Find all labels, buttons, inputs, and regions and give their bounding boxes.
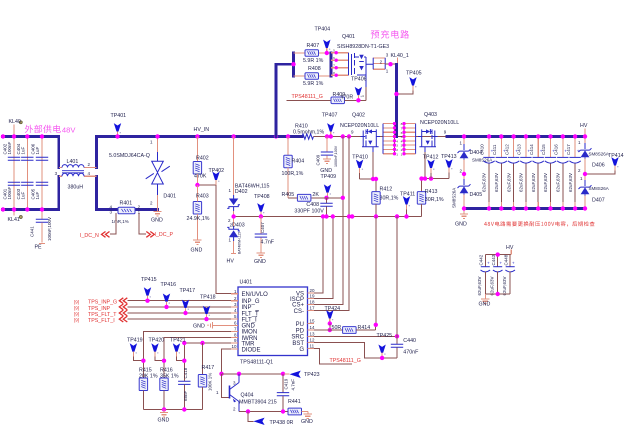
svg-text:TP423: TP423 <box>304 372 320 378</box>
svg-text:I_DC_N: I_DC_N <box>80 233 99 239</box>
svg-text:12: 12 <box>310 338 316 343</box>
resistor R417 <box>198 365 214 410</box>
wire bus into choke <box>59 137 97 210</box>
svg-text:D406: D406 <box>592 163 605 169</box>
svg-text:62uF,63V: 62uF,63V <box>531 173 536 192</box>
svg-text:50R: 50R <box>332 325 342 331</box>
svg-text:R402: R402 <box>196 156 209 162</box>
capacitor C404 <box>16 143 34 160</box>
wire HV top bus <box>447 135 585 138</box>
svg-text:C442: C442 <box>478 254 483 265</box>
svg-text:15: 15 <box>310 319 316 324</box>
capacitor C410 <box>480 134 495 210</box>
resistor R402 <box>193 137 209 186</box>
wire precharge feed <box>276 53 294 137</box>
capacitor C448 <box>502 254 515 295</box>
svg-text:6: 6 <box>234 320 237 325</box>
resistor R415 <box>139 367 158 409</box>
svg-text:TP407: TP407 <box>322 113 338 119</box>
wire top-left bus <box>3 135 59 138</box>
svg-text:TP411: TP411 <box>400 191 415 197</box>
svg-text:R401: R401 <box>120 201 133 207</box>
svg-text:1: 1 <box>580 176 583 181</box>
svg-text:NCEP020N10LL: NCEP020N10LL <box>420 120 459 126</box>
svg-text:62uF,63V: 62uF,63V <box>494 173 499 192</box>
ground at cap bank <box>455 209 468 228</box>
svg-text:2K: 2K <box>312 192 319 198</box>
capacitor C409 <box>315 137 338 168</box>
svg-text:62uF,63V: 62uF,63V <box>489 276 494 295</box>
capacitor C440 <box>391 217 419 358</box>
svg-text:9: 9 <box>444 130 447 135</box>
svg-text:+: + <box>577 148 580 153</box>
node TPS_FLT_I <box>74 316 127 324</box>
svg-text:C407: C407 <box>260 222 265 233</box>
resistor R408 <box>294 66 332 87</box>
testpoint TP407 <box>322 113 338 137</box>
svg-text:0.5mohm,1%: 0.5mohm,1% <box>293 129 324 135</box>
svg-text:D402: D402 <box>235 189 248 195</box>
svg-text:2: 2 <box>578 168 581 173</box>
diode D405 <box>452 174 483 209</box>
testpoint TP421 <box>170 337 187 363</box>
svg-text:[9]: [9] <box>74 306 79 311</box>
wire bottom-left bus <box>3 208 59 211</box>
svg-text:C416: C416 <box>554 144 559 155</box>
diode D407 <box>579 174 609 209</box>
svg-text:INP_G: INP_G <box>242 299 260 305</box>
testpoint TP408 <box>254 194 270 219</box>
svg-text:TP414: TP414 <box>608 153 624 159</box>
ground at C409 <box>320 159 332 174</box>
diode D406 <box>578 137 609 175</box>
wire KL40_1 drop <box>395 64 398 136</box>
resistor R410 shunt zigzag <box>293 124 324 140</box>
svg-text:TPS_INP: TPS_INP <box>88 306 111 312</box>
testpoint TP417 <box>180 288 196 315</box>
svg-text:L401: L401 <box>67 159 79 165</box>
svg-text:5.9R 1%: 5.9R 1% <box>303 81 324 87</box>
svg-text:TPS48111_G: TPS48111_G <box>330 358 361 364</box>
svg-text:470nF: 470nF <box>403 350 419 356</box>
svg-text:HV: HV <box>506 245 514 251</box>
svg-text:TP416: TP416 <box>161 282 177 288</box>
svg-text:TPS_FLT_I: TPS_FLT_I <box>88 318 115 324</box>
svg-text:62uF,63V: 62uF,63V <box>568 173 573 192</box>
svg-text:3: 3 <box>386 53 389 58</box>
svg-text:TP402: TP402 <box>209 168 225 174</box>
capacitor C412 <box>504 134 519 210</box>
testpoint TP410 <box>352 155 368 180</box>
svg-text:62uF,63V: 62uF,63V <box>482 173 487 192</box>
svg-text:4: 4 <box>88 171 91 176</box>
testpoint TP418 <box>200 294 216 321</box>
wire TPS_FLT_I <box>128 318 232 320</box>
wire HV local rail <box>485 255 511 267</box>
wire TPS_INP <box>128 306 232 308</box>
svg-text:1: 1 <box>150 140 153 145</box>
svg-text:4: 4 <box>362 94 364 98</box>
capacitor C402 <box>3 141 21 160</box>
svg-text:1uF: 1uF <box>35 146 40 154</box>
wire TPS_INP_G <box>128 300 232 302</box>
capacitor C407 <box>255 217 275 254</box>
svg-text:100nF,100V: 100nF,100V <box>47 217 52 241</box>
svg-text:TP424: TP424 <box>325 306 341 312</box>
svg-text:C417: C417 <box>566 144 571 155</box>
testpoint TP404 <box>315 27 331 56</box>
capacitor C443 <box>489 254 502 295</box>
svg-text:GND: GND <box>455 222 467 228</box>
svg-text:PE: PE <box>35 245 43 251</box>
testpoint TP402 <box>195 168 224 187</box>
wire GND local rail <box>485 293 510 295</box>
resistor R401 <box>109 201 140 225</box>
svg-text:48V: 48V <box>62 125 76 134</box>
capacitor C442 <box>477 254 490 295</box>
svg-text:C448: C448 <box>503 254 508 265</box>
wire TMR to R417 <box>202 343 204 375</box>
svg-text:GND: GND <box>254 259 266 265</box>
junction dots filter <box>1 134 5 138</box>
diode D404 <box>458 137 493 175</box>
svg-text:30R,1%: 30R,1% <box>380 195 399 201</box>
svg-text:20K 1%: 20K 1% <box>139 373 158 379</box>
svg-text:C415: C415 <box>541 144 546 155</box>
wire BST pin12 <box>314 343 397 358</box>
terminal KL40 <box>9 119 23 137</box>
transistor Q403 <box>418 112 459 152</box>
svg-text:KL40_1: KL40_1 <box>391 53 409 59</box>
svg-text:IMON: IMON <box>242 330 258 336</box>
svg-text:C418: C418 <box>183 367 188 378</box>
wire CS- sense vertical <box>314 137 349 311</box>
svg-text:100K 1%: 100K 1% <box>208 373 213 391</box>
capacitor C414 <box>529 134 544 210</box>
wire base feed <box>222 374 230 398</box>
capacitor C401 <box>3 182 21 199</box>
svg-text:11: 11 <box>310 344 315 349</box>
power HV at D403 <box>227 254 237 265</box>
resistor R407 <box>294 43 332 64</box>
svg-text:R403: R403 <box>196 193 209 199</box>
svg-text:19: 19 <box>310 294 316 299</box>
capacitor C406 <box>31 143 49 160</box>
svg-text:I_DC_P: I_DC_P <box>155 232 174 238</box>
svg-text:SM8S26A: SM8S26A <box>589 152 609 157</box>
svg-text:1: 1 <box>396 152 398 156</box>
svg-text:TP406: TP406 <box>351 77 367 83</box>
svg-text:TP425: TP425 <box>377 333 393 339</box>
svg-text:C440: C440 <box>403 338 416 344</box>
transistor Q401 <box>331 34 389 87</box>
wire VS pin vertical <box>314 217 323 294</box>
junction dots pin stacks overlay <box>393 122 406 155</box>
wire bus shunt to Q402 <box>314 136 361 138</box>
svg-text:[9]: [9] <box>74 312 79 317</box>
wire through MOSFET drains <box>380 136 447 138</box>
svg-text:HV_IN: HV_IN <box>194 127 210 133</box>
gate node Q402 <box>360 152 376 192</box>
svg-text:TP418: TP418 <box>200 294 216 300</box>
wire ISCP pin vertical <box>314 217 333 299</box>
svg-text:100nF: 100nF <box>7 186 12 199</box>
svg-text:TPS48111_G: TPS48111_G <box>292 94 323 100</box>
svg-text:D403: D403 <box>232 223 245 229</box>
svg-text:17: 17 <box>310 306 316 311</box>
svg-text:CS+: CS+ <box>292 303 304 309</box>
svg-text:C408: C408 <box>306 202 319 208</box>
testpoint TP420 <box>149 337 167 363</box>
svg-text:380uH: 380uH <box>68 185 84 191</box>
svg-text:9: 9 <box>351 130 354 135</box>
testpoint TP413 <box>441 154 457 179</box>
svg-text:Q402: Q402 <box>352 113 365 119</box>
svg-text:R404: R404 <box>292 159 305 165</box>
svg-text:GND: GND <box>151 218 163 224</box>
net TPS48111_G wire to R409 <box>287 99 332 101</box>
resistor R416 <box>160 367 179 409</box>
ground at R441 <box>301 414 313 425</box>
svg-text:R405: R405 <box>282 192 295 198</box>
svg-text:1uF: 1uF <box>35 191 40 199</box>
svg-text:MMBT3904 215: MMBT3904 215 <box>239 399 277 405</box>
svg-text:62uF,63V: 62uF,63V <box>506 173 511 192</box>
svg-text:R417: R417 <box>202 365 215 371</box>
resistor R413 <box>417 189 444 216</box>
svg-text:+: + <box>500 260 503 265</box>
svg-text:8: 8 <box>234 333 237 338</box>
svg-text:KL40: KL40 <box>9 119 21 125</box>
wire DIODE pin10 <box>222 349 232 374</box>
svg-text:35K 1%: 35K 1% <box>160 373 179 379</box>
resistor R412 <box>372 186 399 216</box>
svg-text:TP415: TP415 <box>141 277 157 283</box>
node I_DC_N <box>80 232 110 239</box>
wire IMON to R415 <box>143 331 231 378</box>
junction dots VS row <box>350 214 354 218</box>
testpoint TP411 <box>400 191 415 216</box>
svg-text:C443: C443 <box>491 254 496 265</box>
ground at R403 <box>191 240 203 253</box>
testpoint TP425 <box>377 333 393 360</box>
capacitor C403 <box>16 182 34 199</box>
ground GND at D401 <box>151 210 163 224</box>
wire collector row <box>222 373 290 375</box>
svg-text:TP420: TP420 <box>149 337 165 343</box>
svg-text:5.9R 1%: 5.9R 1% <box>303 58 324 64</box>
svg-text:C411: C411 <box>492 144 497 155</box>
svg-text:C412: C412 <box>504 144 509 155</box>
capacitor C417 <box>566 134 581 210</box>
capacitor C408 <box>294 198 332 219</box>
svg-text:DIODE: DIODE <box>242 347 261 353</box>
svg-text:TP412: TP412 <box>423 154 439 160</box>
svg-text:R441: R441 <box>288 399 301 405</box>
ground PE <box>35 244 46 251</box>
wire main HV_IN bus <box>97 135 303 138</box>
svg-text:R414: R414 <box>358 325 371 331</box>
capacitor C419 <box>277 374 296 412</box>
svg-text:24.9K,1%: 24.9K,1% <box>187 216 210 222</box>
svg-text:TP438 0R: TP438 0R <box>270 420 294 426</box>
wire GND bottom bus <box>464 207 585 210</box>
junction dot TP405 overlay <box>394 92 398 96</box>
svg-text:1: 1 <box>228 238 231 243</box>
svg-text:PU: PU <box>296 322 304 328</box>
svg-text:CS-: CS- <box>294 309 304 315</box>
svg-text:2: 2 <box>233 407 236 412</box>
svg-text:G: G <box>299 347 304 353</box>
svg-text:+: + <box>512 260 515 265</box>
svg-text:3: 3 <box>55 171 58 176</box>
svg-text:4.7nF: 4.7nF <box>291 379 296 391</box>
svg-text:SRC: SRC <box>291 335 304 341</box>
testpoint TP401 <box>111 113 127 137</box>
svg-text:FLT_I: FLT_I <box>242 317 258 323</box>
resistor R404 <box>282 137 305 198</box>
wire I_DC_N sense <box>110 213 116 234</box>
svg-text:R413: R413 <box>425 189 438 195</box>
resistor R441 <box>288 399 308 415</box>
svg-text:[9]: [9] <box>74 318 79 323</box>
svg-text:TP409: TP409 <box>321 174 337 180</box>
svg-text:C414: C414 <box>529 144 534 155</box>
svg-text:SM8S26A: SM8S26A <box>472 158 492 163</box>
node I_DC_P <box>146 232 173 239</box>
svg-text:62uF,63V: 62uF,63V <box>519 173 524 192</box>
svg-text:62uF,63V: 62uF,63V <box>556 173 561 192</box>
svg-text:5: 5 <box>333 49 335 53</box>
wire Q401 drain to KL40_1 <box>385 63 396 65</box>
svg-text:TP404: TP404 <box>315 27 331 33</box>
svg-text:470K: 470K <box>194 174 207 180</box>
svg-text:1: 1 <box>386 69 389 74</box>
svg-text:[9]: [9] <box>74 299 79 304</box>
svg-text:1: 1 <box>228 188 231 193</box>
svg-text:GND: GND <box>479 301 491 307</box>
svg-text:Q404: Q404 <box>241 392 254 398</box>
testpoint TP438 <box>248 412 294 427</box>
svg-text:+: + <box>487 260 490 265</box>
svg-text:5.0SMDJ64CA-Q: 5.0SMDJ64CA-Q <box>109 153 150 159</box>
svg-text:GND: GND <box>242 324 256 330</box>
svg-text:4.7nF: 4.7nF <box>261 240 275 246</box>
svg-text:INP: INP <box>242 305 252 311</box>
svg-text:68nF: 68nF <box>183 390 188 401</box>
svg-text:2: 2 <box>459 169 462 174</box>
testpoint TP405 <box>394 71 421 97</box>
wire PU/PD tie <box>329 324 331 331</box>
svg-text:100nF: 100nF <box>7 141 12 154</box>
svg-text:HV: HV <box>227 259 235 265</box>
svg-text:SM8S26A: SM8S26A <box>452 188 457 208</box>
svg-text:1000nF,100V: 1000nF,100V <box>334 145 338 167</box>
svg-text:GND: GND <box>158 418 170 424</box>
wire KL40_1 drop overlay <box>395 64 398 136</box>
svg-text:3: 3 <box>234 302 237 307</box>
svg-text:6: 6 <box>333 56 335 60</box>
svg-text:D405: D405 <box>470 192 483 198</box>
svg-text:HV: HV <box>580 123 588 129</box>
power HV label <box>506 245 514 255</box>
inductor L401 <box>55 159 97 191</box>
svg-text:TP413: TP413 <box>441 154 457 160</box>
testpoint TP416 <box>161 282 177 309</box>
wire SRC pin13 <box>314 335 397 337</box>
svg-text:1uF: 1uF <box>21 191 26 199</box>
svg-text:1: 1 <box>459 141 462 146</box>
svg-text:2: 2 <box>150 201 153 206</box>
diode D403 <box>227 217 245 255</box>
title 外部供电48V <box>25 125 77 135</box>
note red text <box>484 221 594 226</box>
svg-text:1mR,1%: 1mR,1% <box>112 219 129 224</box>
wire GND row <box>143 409 202 411</box>
node HV <box>580 123 588 137</box>
svg-text:13: 13 <box>310 331 316 336</box>
resistor R409 <box>331 92 353 104</box>
capacitor C405 <box>31 182 49 199</box>
ground at R415 row <box>158 410 170 424</box>
svg-text:1: 1 <box>234 289 237 294</box>
svg-text:62uF,63V: 62uF,63V <box>543 173 548 192</box>
capacitor C441 <box>30 210 52 243</box>
svg-text:TPS_INP_G: TPS_INP_G <box>88 300 117 306</box>
svg-text:Q403: Q403 <box>424 112 437 118</box>
wire TMR row <box>184 343 231 381</box>
svg-text:R407: R407 <box>307 43 320 49</box>
svg-text:TP421: TP421 <box>170 337 186 343</box>
svg-text:U401: U401 <box>240 280 253 286</box>
svg-text:D401: D401 <box>163 194 176 200</box>
pin stack Q403 drain pins <box>401 122 416 156</box>
resistor R414 <box>314 325 376 334</box>
wire TPS_FLT_T <box>128 312 232 314</box>
svg-text:EN/UVLO: EN/UVLO <box>242 292 269 298</box>
wire CS+ sense vertical <box>314 137 343 305</box>
testpoint TP423 <box>284 371 320 378</box>
capacitor C411 <box>492 134 507 210</box>
svg-text:18: 18 <box>310 299 316 304</box>
svg-text:14: 14 <box>310 325 316 330</box>
wire IWRN to R416 <box>164 338 231 378</box>
svg-text:TP419: TP419 <box>127 337 143 343</box>
wire filter column 2 <box>26 137 28 210</box>
svg-text:2: 2 <box>234 296 237 301</box>
svg-text:SM8S26A: SM8S26A <box>589 186 609 191</box>
svg-text:GND: GND <box>193 323 205 329</box>
svg-text:62uF,63V: 62uF,63V <box>477 276 482 295</box>
svg-text:C419: C419 <box>284 378 289 389</box>
wire emitter row <box>239 411 288 413</box>
wire R409 to Q401 gate <box>345 87 367 100</box>
testpoint TP415 <box>141 277 157 303</box>
svg-text:1: 1 <box>216 390 219 395</box>
capacitor C416 <box>554 134 569 210</box>
ground at C407 <box>254 253 266 265</box>
diode D402 <box>227 137 269 224</box>
svg-text:10: 10 <box>231 344 237 349</box>
svg-text:C410: C410 <box>480 144 485 155</box>
svg-text:TPS48111-Q1: TPS48111-Q1 <box>240 360 273 366</box>
svg-text:62uF,63V: 62uF,63V <box>502 276 507 295</box>
svg-text:TP417: TP417 <box>180 288 196 294</box>
svg-text:TP401: TP401 <box>111 113 127 119</box>
svg-text:GND: GND <box>191 247 203 253</box>
svg-text:470R: 470R <box>341 95 354 101</box>
testpoint TP419 <box>127 337 146 363</box>
